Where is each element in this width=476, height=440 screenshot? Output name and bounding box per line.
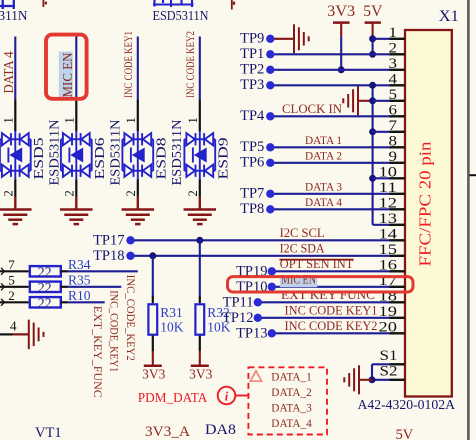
pin S1 of X1 (390, 363, 405, 365)
svg-text:1: 1 (124, 117, 138, 123)
svg-text:ESD5: ESD5 (32, 138, 47, 180)
resistor R31 (148, 304, 157, 334)
pin 2 of ESD8 (137, 179, 139, 196)
junction 3V3/pin3 (338, 66, 345, 73)
svg-text:9: 9 (389, 149, 398, 165)
svg-text:2: 2 (63, 190, 77, 196)
svg-text:8: 8 (389, 133, 398, 149)
pin 2 of R32 (199, 336, 201, 351)
net label MIC EN (selected) (280, 277, 318, 288)
svg-text:6: 6 (389, 102, 398, 118)
pin 14 of X1 (390, 239, 405, 241)
svg-text:R31: R31 (160, 305, 183, 320)
note marker circled i (218, 387, 236, 405)
pin 11 of X1 (390, 193, 405, 195)
svg-text:22: 22 (38, 265, 52, 280)
pin 2 of R34 (61, 270, 68, 272)
svg-text:EXT KEY FUNC: EXT KEY FUNC (281, 288, 375, 302)
svg-text:1: 1 (186, 117, 200, 123)
pin 2 of R31 (152, 336, 154, 351)
svg-text:2: 2 (8, 288, 15, 303)
svg-text:INC CODE KEY2: INC CODE KEY2 (183, 31, 197, 98)
junction S2/shield (369, 376, 376, 383)
resistor R34 (30, 266, 61, 276)
svg-text:10: 10 (379, 164, 398, 180)
svg-text:ESD9: ESD9 (216, 138, 231, 180)
svg-text:3V3: 3V3 (142, 367, 165, 382)
ground at TP9 (sideways) (294, 24, 309, 53)
svg-text:S2: S2 (380, 364, 398, 380)
wire pin7 stub (373, 131, 390, 133)
svg-text:CLOCK IN: CLOCK IN (282, 102, 342, 116)
resistor R32 (195, 304, 204, 334)
svg-text:R35: R35 (68, 273, 91, 288)
wire 3V3 to pin3 net (340, 37, 342, 70)
svg-text:MIC EN: MIC EN (281, 272, 316, 286)
svg-text:20: 20 (379, 319, 398, 335)
pin 10 of X1 (390, 177, 405, 179)
junction R31/TP18 wire (149, 252, 156, 259)
svg-text:10K: 10K (160, 320, 184, 335)
wire GND bus to pin 13 (373, 224, 390, 226)
svg-text:TP13: TP13 (236, 326, 267, 342)
net label MIC EN (59, 52, 73, 98)
pin 4 of X1 (390, 84, 405, 86)
svg-text:5: 5 (8, 273, 15, 288)
wire TP7 to pin 11 (274, 193, 389, 195)
highlight box around MIC EN / pin 17 (228, 277, 414, 292)
svg-text:TP8: TP8 (240, 201, 264, 217)
wire S1-S2 shield (372, 363, 390, 365)
svg-text:TP12: TP12 (222, 310, 253, 326)
svg-text:EXT_KEY_FUNC: EXT_KEY_FUNC (91, 306, 105, 398)
svg-text:R10: R10 (68, 288, 91, 303)
svg-text:4: 4 (10, 318, 17, 333)
ESD diode ESD8 (122, 131, 153, 180)
wire R34 to INC_CODE_KEY2 (68, 270, 138, 272)
ground at S2 (sideways, facing left) (344, 365, 359, 394)
svg-text:7: 7 (389, 118, 398, 134)
svg-text:2: 2 (2, 190, 16, 196)
pin 5 of X1 (390, 100, 405, 102)
wire TP4 to pin 6 (274, 115, 389, 117)
note box (dashed) with DATA_1..DATA_4 (248, 367, 327, 434)
svg-text:INC CODE KEY1: INC CODE KEY1 (285, 303, 378, 317)
svg-text:DA8: DA8 (205, 422, 236, 438)
svg-text:5: 5 (389, 87, 398, 103)
pin 13 of X1 (390, 224, 405, 226)
svg-text:DATA_2: DATA_2 (271, 385, 312, 399)
pin 2 of R35 (61, 286, 68, 288)
svg-text:1: 1 (2, 117, 16, 123)
pin 7 of X1 (390, 131, 405, 133)
ground below ESD6 (60, 210, 93, 225)
wire R32 to 3V3 (199, 351, 201, 366)
svg-text:INC CODE KEY2: INC CODE KEY2 (285, 319, 378, 333)
wire pin1 stub (373, 38, 390, 40)
svg-text:15: 15 (379, 242, 398, 258)
wire TP6 to pin 9 (274, 162, 389, 164)
svg-text:2: 2 (124, 190, 138, 196)
pin 1 of X1 (390, 38, 405, 40)
ESD diode ESD9 (184, 131, 215, 180)
svg-text:ESD5311N: ESD5311N (108, 120, 123, 186)
wire TP1 to pin 2 (274, 53, 389, 55)
wire R35 to INC_CODE_KEY1 (68, 286, 122, 288)
ESD diode ESD5 (0, 131, 31, 180)
svg-text:22: 22 (38, 296, 52, 311)
ground at pin 4 (sideways) (29, 320, 44, 350)
warning triangle (250, 371, 261, 381)
pin 8 of X1 (390, 146, 405, 148)
pin 1 of ESD6 (75, 100, 77, 132)
wire pin5 stub (373, 100, 390, 102)
power port 3V3 under R32 (191, 364, 209, 367)
power port 3V3 (top) (333, 23, 350, 37)
svg-text:1: 1 (63, 117, 77, 123)
wire TP18 to pin 15 (I2C SDA) (134, 255, 389, 257)
pin 5 (from component at left) (1, 283, 5, 290)
svg-text:ESD6: ESD6 (93, 138, 108, 180)
pin 2 of X1 (390, 53, 405, 55)
svg-text:3V3: 3V3 (189, 367, 212, 382)
svg-text:12: 12 (379, 195, 398, 211)
svg-text:PDM_DATA: PDM_DATA (138, 390, 208, 405)
svg-text:DATA_4: DATA_4 (271, 416, 312, 430)
junction GND/pin7 (369, 128, 376, 135)
wire TP9 to ground (274, 38, 294, 40)
wire net INC CODE KEY2 (top) (199, 37, 201, 100)
svg-text:ESD5311N: ESD5311N (170, 120, 185, 186)
svg-text:TP5: TP5 (240, 139, 264, 155)
wire pin10 stub (373, 177, 390, 179)
svg-text:S1: S1 (380, 348, 398, 364)
power port 3V3 under R31 (144, 364, 162, 367)
svg-text:TP4: TP4 (240, 108, 265, 124)
svg-text:4: 4 (389, 71, 398, 87)
wire TP17 to pin 14 (I2C SCL) (134, 239, 389, 241)
svg-text:13: 13 (379, 211, 398, 227)
svg-text:DATA_1: DATA_1 (271, 370, 312, 384)
svg-text:DATA 2: DATA 2 (305, 149, 342, 163)
junction R32/TP17 wire (196, 237, 203, 244)
svg-text:TP11: TP11 (223, 295, 254, 311)
wire net DATA 4 (top) (14, 37, 16, 100)
pin 6 of X1 (390, 115, 405, 117)
svg-text:ESD5311N: ESD5311N (153, 8, 209, 23)
svg-text:1: 1 (389, 25, 398, 41)
wire TP8 to pin 12 (274, 208, 389, 210)
svg-text:VT1: VT1 (35, 425, 62, 440)
wire TP11 to pin 18 (262, 301, 390, 303)
power port 5V (top) (365, 23, 381, 37)
svg-text:DATA 4: DATA 4 (2, 52, 17, 94)
svg-text:INC CODE KEY1: INC CODE KEY1 (121, 31, 135, 98)
svg-text:A42-4320-0102A: A42-4320-0102A (358, 398, 456, 413)
wire ESD9 pin2 to ground (199, 197, 201, 210)
wire marker to note box (235, 395, 248, 397)
pin 1 of ESD8 (137, 100, 139, 132)
svg-text:TP2: TP2 (240, 62, 264, 78)
wire TP12 to pin 19 (262, 317, 390, 319)
pin 20 of X1 (390, 332, 405, 334)
pin 1 of ESD9 (199, 100, 201, 132)
svg-text:22: 22 (38, 280, 52, 295)
GND bus vertical wire (pins 4,5,7,10,13) (372, 85, 374, 225)
ground below ESD8 (122, 210, 155, 225)
svg-text:2: 2 (389, 40, 398, 56)
svg-text:5V: 5V (396, 427, 414, 440)
svg-text:311N: 311N (0, 8, 28, 23)
svg-text:TP1: TP1 (240, 46, 264, 62)
junction GND/pin4 (369, 82, 376, 89)
wire ground to GND bus (358, 100, 371, 102)
ground at CLOCK IN (sideways, facing left) (343, 86, 358, 115)
wire TP10 to pin 17 (276, 286, 390, 288)
svg-text:DATA 4: DATA 4 (305, 195, 342, 209)
svg-text:16: 16 (379, 257, 398, 273)
pin S2 of X1 (390, 379, 405, 381)
pin 2 of ESD5 (14, 179, 16, 196)
pin 1 of R31 (152, 296, 154, 304)
pin 3 of X1 (390, 69, 405, 71)
pin 2 of ESD9 (199, 179, 201, 196)
sheet pin tick (right) (470, 174, 476, 176)
wire TP3 to pin 4 (274, 84, 389, 86)
pin 16 of X1 (390, 270, 405, 272)
svg-text:i: i (225, 390, 229, 404)
svg-text:TP7: TP7 (240, 186, 264, 202)
ground stem remnant 2 (top) (232, 0, 234, 10)
pin 2 of ESD6 (75, 179, 77, 196)
svg-text:ESD8: ESD8 (154, 138, 169, 180)
svg-text:3V3_A: 3V3_A (145, 424, 191, 440)
svg-text:TP9: TP9 (240, 31, 264, 47)
wire R10 to EXT_KEY_FUNC (68, 301, 105, 303)
junction 5V/pin1 (369, 35, 376, 42)
partial ESD symbol above ESD8 column (cut off) (153, 0, 194, 7)
wire shield to ground (359, 379, 372, 381)
pin 2 (from component at left) (1, 299, 5, 306)
sheet boundary line (right) (467, 0, 470, 440)
ground remnant (top) (43, 0, 46, 7)
pin 7 (from component at left) (1, 268, 5, 275)
wire R31 to net (152, 256, 154, 296)
svg-text:19: 19 (379, 304, 398, 320)
wire R32 to net (199, 240, 201, 295)
svg-text:DATA 3: DATA 3 (305, 180, 342, 194)
partial ESD symbol above (cut off at top edge) (0, 0, 15, 9)
pin 12 of X1 (390, 208, 405, 210)
svg-text:14: 14 (379, 226, 398, 242)
wire 5V to pins 1-2 (372, 37, 374, 55)
ground below ESD5 (0, 210, 32, 225)
svg-text:I2C SCL: I2C SCL (280, 226, 325, 240)
wire TP13 to pin 20 (276, 332, 390, 334)
junction 5V/pin2 (369, 51, 376, 58)
svg-text:TP17: TP17 (93, 232, 124, 248)
svg-text:INC_CODE_KEY2: INC_CODE_KEY2 (124, 275, 138, 361)
ground below ESD9 (184, 210, 217, 225)
junction GND/pin10 (369, 175, 376, 182)
svg-text:3: 3 (389, 56, 398, 72)
svg-text:7: 7 (8, 257, 15, 272)
wire TP5 to pin 8 (274, 146, 389, 148)
wire ESD8 pin2 to ground (137, 197, 139, 210)
svg-text:DATA 1: DATA 1 (305, 133, 342, 147)
pin 17 of X1 (390, 286, 405, 288)
connector X1 body (405, 30, 452, 397)
svg-text:3V3: 3V3 (327, 3, 355, 20)
resistor R35 (30, 282, 61, 292)
pin 1 of R32 (199, 296, 201, 304)
pin 19 of X1 (390, 317, 405, 319)
wire TP2 to pin 3 (274, 69, 389, 71)
pin 2 of R10 (61, 301, 68, 303)
wire ESD6 pin2 to ground (75, 197, 77, 210)
svg-text:MIC EN: MIC EN (60, 52, 75, 97)
svg-text:X1: X1 (439, 8, 459, 25)
svg-text:TP18: TP18 (93, 248, 124, 264)
highlight box around MIC EN net label (46, 35, 87, 99)
svg-text:TP3: TP3 (240, 77, 264, 93)
svg-text:2: 2 (186, 190, 200, 196)
svg-text:5V: 5V (363, 3, 383, 20)
svg-text:INC_CODE_KEY1: INC_CODE_KEY1 (107, 290, 121, 372)
svg-text:DATA_3: DATA_3 (271, 401, 312, 415)
svg-text:I2C SDA: I2C SDA (280, 241, 325, 255)
wire R31 to 3V3 (152, 351, 154, 366)
resistor R10 (30, 297, 61, 307)
junction GND/pin5 (369, 97, 376, 104)
ESD diode ESD6 (61, 131, 92, 180)
svg-text:11: 11 (379, 180, 398, 196)
pin 9 of X1 (390, 162, 405, 164)
svg-text:TP6: TP6 (240, 155, 264, 171)
pin 4 (from component at left) (0, 333, 13, 335)
pin 1 of ESD5 (14, 100, 16, 132)
wire net MIC EN (top) (75, 37, 77, 100)
svg-text:FFC/FPC 20 pin: FFC/FPC 20 pin (416, 142, 435, 267)
svg-text:R34: R34 (68, 257, 91, 272)
pin 15 of X1 (390, 255, 405, 257)
wire pin 4 to ground (13, 333, 29, 335)
wire TP19 to pin 16 (276, 270, 390, 272)
wire net INC CODE KEY1 (top) (137, 37, 139, 100)
wire ESD5 pin2 to ground (14, 197, 16, 210)
pin 18 of X1 (390, 301, 405, 303)
